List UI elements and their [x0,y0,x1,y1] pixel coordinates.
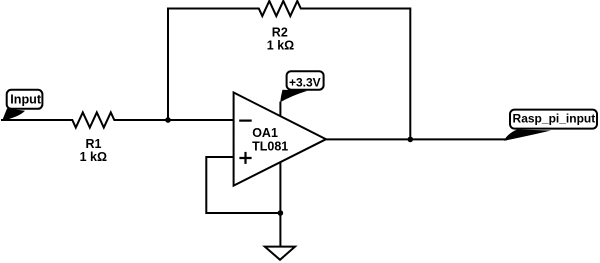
svg-text:Rasp_pi_input: Rasp_pi_input [513,111,596,125]
svg-text:Input: Input [10,93,42,107]
svg-text:R1: R1 [86,137,102,151]
svg-text:1 kΩ: 1 kΩ [267,38,294,52]
svg-text:1 kΩ: 1 kΩ [80,150,107,164]
svg-text:TL081: TL081 [252,139,288,153]
svg-text:R2: R2 [272,25,288,39]
svg-text:+3.3V: +3.3V [289,75,321,89]
svg-text:OA1: OA1 [252,126,278,140]
